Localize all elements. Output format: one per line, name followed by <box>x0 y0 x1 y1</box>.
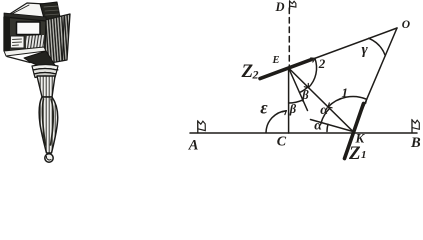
front face right hatched zone <box>26 35 44 49</box>
svg-text:C: C <box>277 135 287 150</box>
svg-text:2: 2 <box>252 68 259 82</box>
line C-E (vertical) <box>288 68 290 133</box>
dashed vertical D line <box>288 8 290 66</box>
right face inner edge line <box>63 17 65 61</box>
svg-text:A: A <box>188 137 199 153</box>
alpha arc 1 (horizontal to K-normal) <box>327 124 328 131</box>
svg-text:β: β <box>289 102 297 116</box>
cone neck <box>37 76 55 97</box>
svg-text:Z: Z <box>348 143 361 164</box>
end ball <box>45 154 53 162</box>
line E-K <box>289 68 353 132</box>
svg-text:E: E <box>272 55 280 66</box>
open lid (dark tilted panel, top right) <box>40 2 61 22</box>
arc 2 at E with arrowheads <box>308 58 316 87</box>
svg-text:γ: γ <box>362 42 369 58</box>
svg-text:ε: ε <box>260 98 268 118</box>
gamma arc at O <box>369 38 386 55</box>
svg-text:B: B <box>410 135 421 151</box>
svg-text:2: 2 <box>318 56 326 71</box>
epsilon arc at C with arrowhead <box>266 111 286 133</box>
front-top rim strip <box>4 13 46 22</box>
bottom bright rim band <box>4 47 46 56</box>
line K-O <box>353 28 397 132</box>
small white tag with scribbles <box>11 36 25 48</box>
svg-text:D: D <box>275 0 285 14</box>
inner shade lines of handle <box>42 99 45 145</box>
box top face <box>5 3 46 18</box>
baseline AB <box>190 132 417 134</box>
normal at K <box>311 120 354 132</box>
svg-text:α: α <box>314 119 322 134</box>
svg-text:α: α <box>320 103 328 118</box>
beta arc 1 (vertical to normal) <box>289 100 303 103</box>
front face base <box>4 17 46 51</box>
arc 1 at K with arrowheads <box>328 97 367 107</box>
alpha arc 2 (K-normal to KE) <box>321 108 329 122</box>
box bottom shadow wedge <box>24 51 58 70</box>
flag arrow at D <box>289 1 291 9</box>
mirror Z1 (thick) <box>345 104 364 159</box>
svg-text:β: β <box>301 88 309 102</box>
svg-text:1: 1 <box>342 85 349 100</box>
mirror (white rectangle) <box>17 22 41 35</box>
front left dark edge band <box>4 16 10 52</box>
flag arrow at A <box>197 121 199 133</box>
mirror Z2 (thick) <box>260 60 311 79</box>
svg-text:1: 1 <box>361 149 367 161</box>
normal at E <box>289 68 308 111</box>
svg-text:O: O <box>402 19 410 31</box>
line E-O <box>289 28 397 68</box>
right side face (hatched) <box>45 14 70 64</box>
handle bulge <box>39 97 57 153</box>
beta arc 2 (normal to EK) <box>300 87 308 93</box>
collar rings <box>32 65 58 78</box>
flag arrow at B <box>411 120 413 133</box>
